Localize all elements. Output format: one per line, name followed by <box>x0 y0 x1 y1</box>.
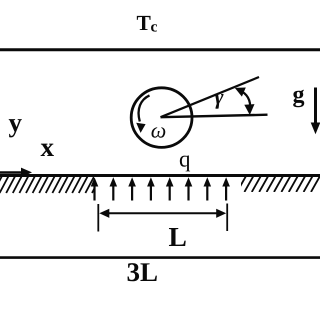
svg-text:g: g <box>293 82 305 108</box>
svg-text:y: y <box>9 108 23 138</box>
svg-text:q: q <box>179 147 191 172</box>
svg-text:ω: ω <box>151 118 167 143</box>
svg-text:3L: 3L <box>127 257 159 287</box>
svg-text:c: c <box>151 18 158 35</box>
svg-text:γ: γ <box>214 84 224 109</box>
svg-text:x: x <box>41 132 55 162</box>
svg-text:L: L <box>169 221 187 252</box>
svg-text:T: T <box>137 11 152 35</box>
